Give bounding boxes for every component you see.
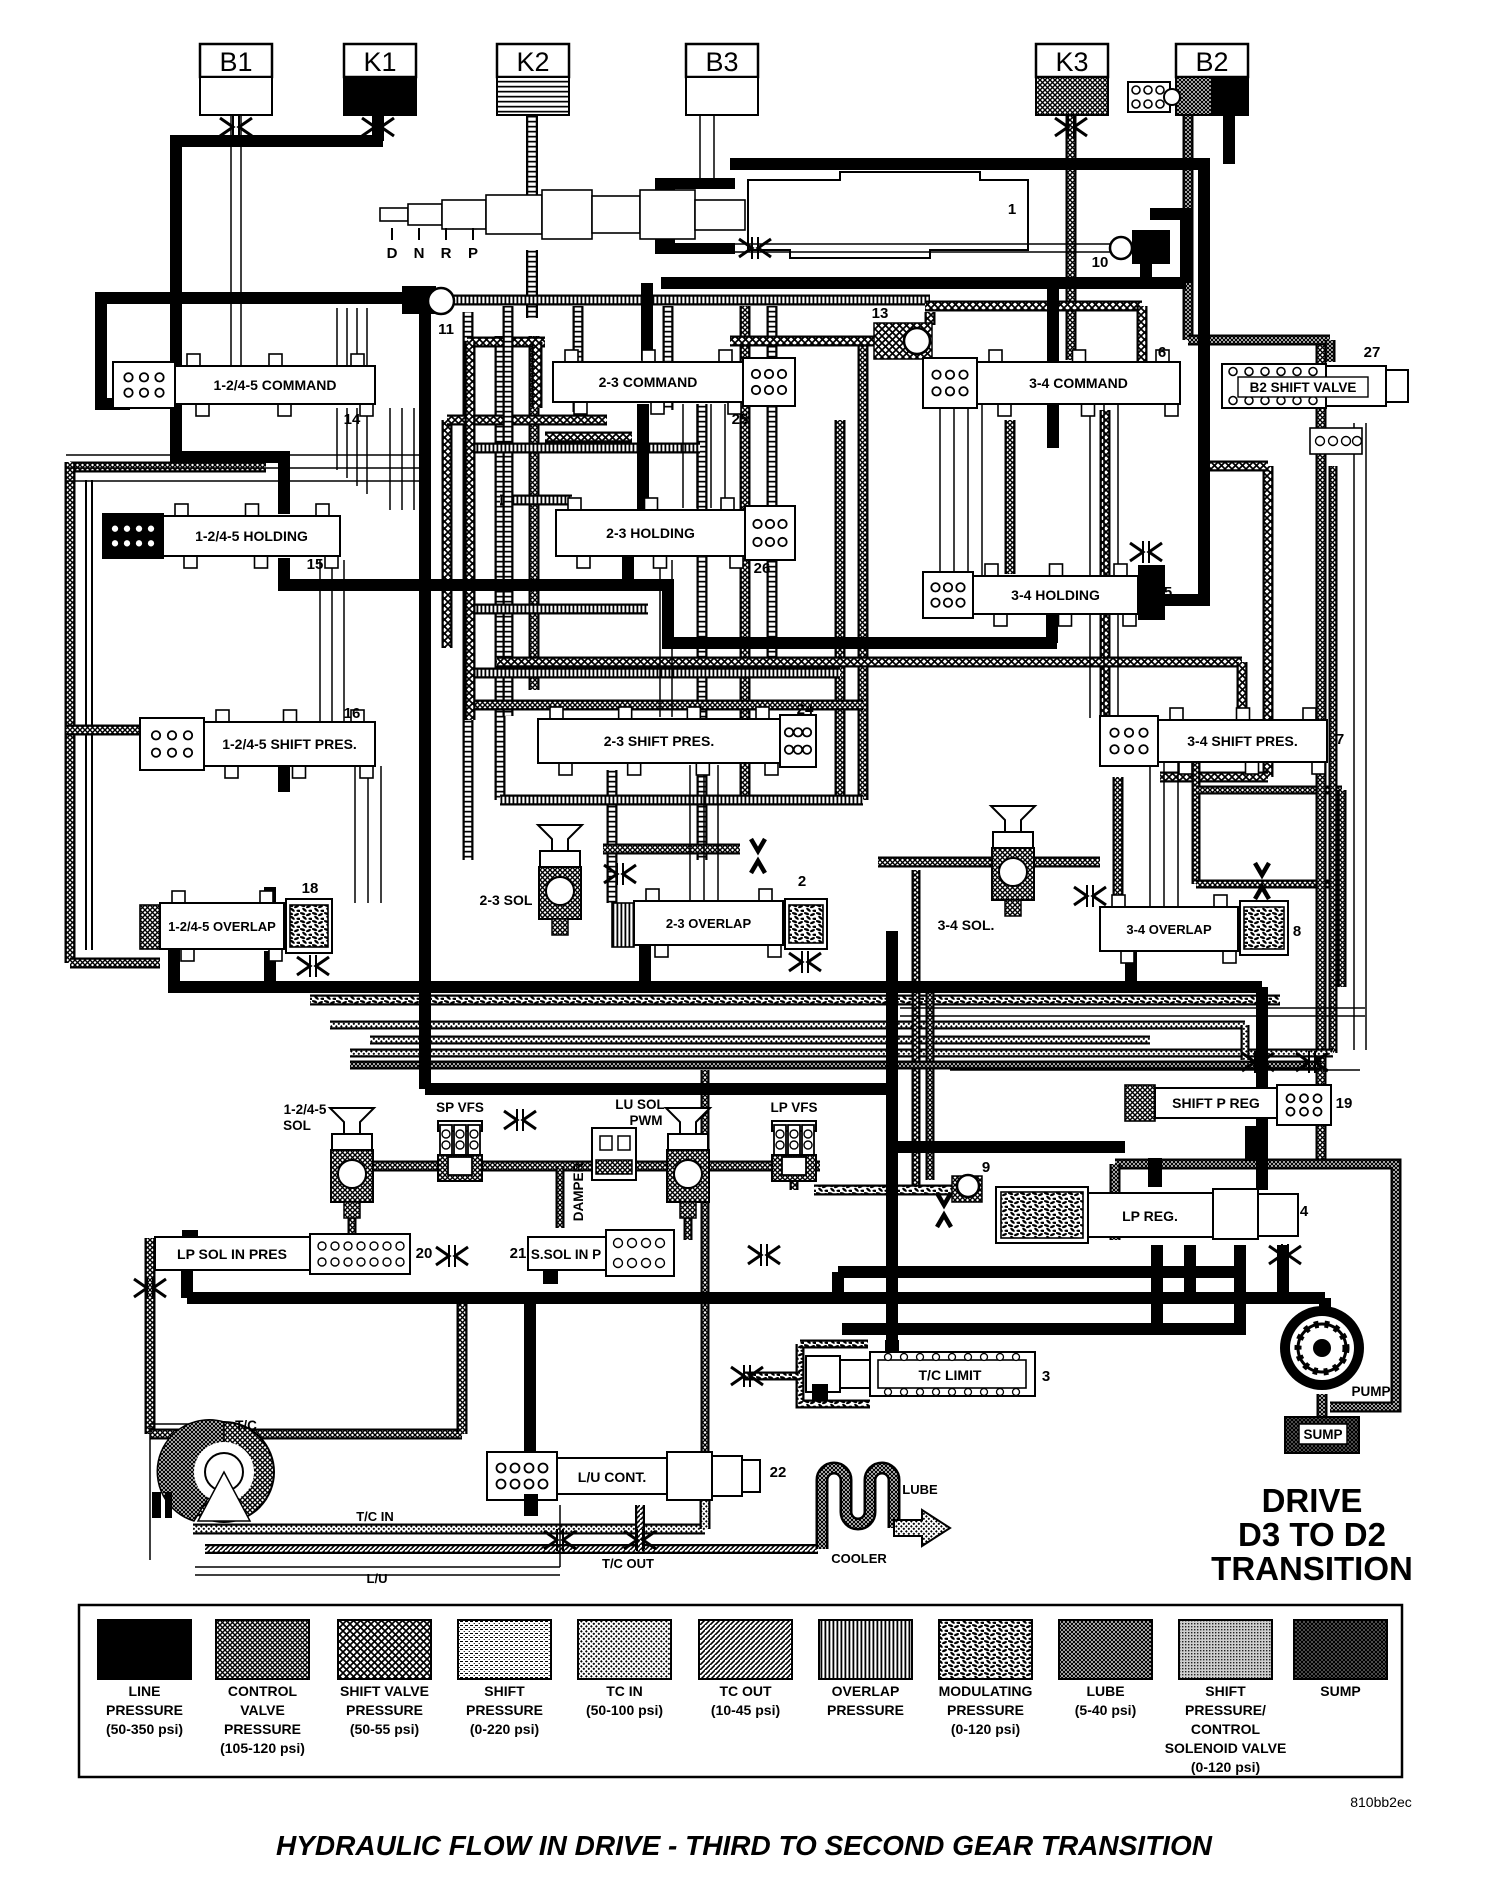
svg-text:6: 6 [1158,344,1166,361]
svg-text:PRESSURE: PRESSURE [947,1702,1024,1718]
svg-text:LUBE: LUBE [1086,1683,1124,1699]
svg-text:T/C LIMIT: T/C LIMIT [919,1367,982,1383]
svg-text:(0-120 psi): (0-120 psi) [951,1721,1020,1737]
svg-text:27: 27 [1364,344,1381,361]
svg-text:5: 5 [1164,584,1172,601]
svg-text:P: P [468,245,478,262]
svg-text:TC OUT: TC OUT [719,1683,772,1699]
svg-text:T/C OUT: T/C OUT [602,1556,654,1571]
svg-text:19: 19 [1336,1095,1353,1112]
svg-text:7: 7 [1336,731,1344,748]
svg-text:3-4 COMMAND: 3-4 COMMAND [1029,375,1128,391]
svg-text:21: 21 [510,1245,527,1262]
svg-text:11: 11 [438,321,454,338]
svg-text:(50-350 psi): (50-350 psi) [106,1721,183,1737]
svg-text:K2: K2 [516,47,549,77]
svg-text:HYDRAULIC FLOW IN DRIVE - THIR: HYDRAULIC FLOW IN DRIVE - THIRD TO SECON… [276,1830,1213,1861]
svg-text:B2: B2 [1195,47,1228,77]
svg-text:SHIFT P REG: SHIFT P REG [1172,1095,1260,1111]
svg-text:3-4 SOL.: 3-4 SOL. [938,917,995,933]
svg-text:B1: B1 [219,47,252,77]
svg-text:LU SOL: LU SOL [615,1097,665,1112]
svg-text:SUMP: SUMP [1320,1683,1360,1699]
svg-text:(50-55 psi): (50-55 psi) [350,1721,419,1737]
svg-text:CONTROL: CONTROL [228,1683,298,1699]
svg-text:PUMP: PUMP [1351,1384,1390,1399]
svg-text:1-2/4-5: 1-2/4-5 [284,1102,327,1117]
svg-text:PRESSURE: PRESSURE [224,1721,301,1737]
svg-text:SHIFT VALVE: SHIFT VALVE [340,1683,429,1699]
svg-text:B2 SHIFT VALVE: B2 SHIFT VALVE [1250,380,1357,395]
svg-text:810bb2ec: 810bb2ec [1350,1794,1412,1810]
svg-text:L/U: L/U [367,1571,388,1586]
svg-text:VALVE: VALVE [240,1702,285,1718]
svg-text:25: 25 [732,411,749,428]
svg-text:9: 9 [982,1159,990,1176]
svg-text:TRANSITION: TRANSITION [1211,1550,1413,1587]
svg-text:1-2/4-5 COMMAND: 1-2/4-5 COMMAND [214,377,337,393]
svg-text:L/U CONT.: L/U CONT. [578,1469,646,1485]
svg-text:14: 14 [344,411,361,428]
svg-text:PRESSURE: PRESSURE [466,1702,543,1718]
svg-text:10: 10 [1092,254,1109,271]
svg-text:SP VFS: SP VFS [436,1100,484,1115]
svg-text:SOL: SOL [283,1118,311,1133]
svg-text:SUMP: SUMP [1303,1427,1342,1442]
svg-text:LP SOL IN PRES: LP SOL IN PRES [177,1246,287,1262]
svg-text:2-3 HOLDING: 2-3 HOLDING [606,525,695,541]
svg-text:18: 18 [302,880,319,897]
svg-text:CONTROL: CONTROL [1191,1721,1261,1737]
svg-text:(105-120 psi): (105-120 psi) [220,1740,305,1756]
svg-text:13: 13 [872,305,889,322]
svg-text:1-2/4-5 SHIFT PRES.: 1-2/4-5 SHIFT PRES. [222,736,357,752]
svg-text:24: 24 [797,701,814,718]
svg-text:2-3 OVERLAP: 2-3 OVERLAP [666,916,752,931]
svg-text:8: 8 [1293,923,1301,940]
svg-text:3-4 OVERLAP: 3-4 OVERLAP [1126,922,1212,937]
svg-text:16: 16 [344,705,361,722]
svg-text:D3 TO D2: D3 TO D2 [1238,1516,1386,1553]
svg-text:SOLENOID VALVE: SOLENOID VALVE [1165,1740,1287,1756]
svg-text:N: N [414,245,425,262]
svg-text:(5-40 psi): (5-40 psi) [1075,1702,1136,1718]
svg-text:1-2/4-5 OVERLAP: 1-2/4-5 OVERLAP [168,919,276,934]
svg-text:T/C IN: T/C IN [356,1509,394,1524]
svg-text:20: 20 [416,1245,433,1262]
svg-text:3-4 SHIFT PRES.: 3-4 SHIFT PRES. [1187,733,1297,749]
svg-text:LINE: LINE [129,1683,161,1699]
svg-text:(0-120 psi): (0-120 psi) [1191,1759,1260,1775]
svg-text:DAMPER: DAMPER [571,1163,586,1222]
svg-text:26: 26 [754,560,771,577]
svg-text:15: 15 [307,556,324,573]
svg-text:K1: K1 [363,47,396,77]
svg-text:2-3 SHIFT PRES.: 2-3 SHIFT PRES. [604,733,714,749]
svg-text:2: 2 [798,873,806,890]
svg-text:PRESSURE: PRESSURE [827,1702,904,1718]
svg-text:LP VFS: LP VFS [770,1100,817,1115]
svg-text:1: 1 [1008,201,1016,218]
svg-text:3: 3 [1042,1368,1050,1385]
svg-text:PWM: PWM [630,1113,663,1128]
svg-text:R: R [441,245,452,262]
svg-text:3-4 HOLDING: 3-4 HOLDING [1011,587,1100,603]
svg-text:K3: K3 [1055,47,1088,77]
svg-text:PRESSURE/: PRESSURE/ [1185,1702,1266,1718]
svg-text:LP REG.: LP REG. [1122,1208,1178,1224]
svg-text:TC IN: TC IN [606,1683,643,1699]
svg-text:T/C: T/C [235,1418,257,1433]
svg-text:PRESSURE: PRESSURE [346,1702,423,1718]
svg-text:4: 4 [1300,1203,1309,1220]
svg-text:D: D [387,245,398,262]
svg-text:COOLER: COOLER [831,1551,887,1566]
svg-text:SHIFT: SHIFT [484,1683,525,1699]
svg-text:LUBE: LUBE [902,1482,938,1497]
svg-text:DRIVE: DRIVE [1262,1482,1363,1519]
svg-text:S.SOL IN P: S.SOL IN P [531,1247,601,1262]
svg-text:SHIFT: SHIFT [1205,1683,1246,1699]
svg-text:B3: B3 [705,47,738,77]
svg-text:(50-100 psi): (50-100 psi) [586,1702,663,1718]
svg-text:(0-220 psi): (0-220 psi) [470,1721,539,1737]
svg-text:PRESSURE: PRESSURE [106,1702,183,1718]
svg-text:(10-45 psi): (10-45 psi) [711,1702,780,1718]
svg-text:MODULATING: MODULATING [939,1683,1033,1699]
svg-text:2-3 COMMAND: 2-3 COMMAND [599,374,698,390]
svg-text:2-3 SOL: 2-3 SOL [480,892,533,908]
svg-text:OVERLAP: OVERLAP [832,1683,900,1699]
svg-text:22: 22 [770,1464,787,1481]
svg-text:1-2/4-5 HOLDING: 1-2/4-5 HOLDING [195,528,308,544]
